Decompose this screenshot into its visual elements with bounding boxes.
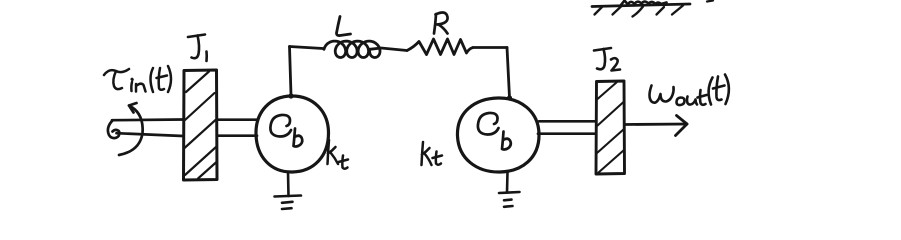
ground 1 (below motor 1) [275,172,302,209]
input shaft (two lines) [112,120,183,137]
wire motor1 top to corner [290,47,292,96]
junction dot motor1 top [288,93,293,98]
label k_t (motor 2) [422,142,443,165]
label e_b (motor 1) [270,115,302,147]
label J2 [594,48,620,71]
label k_t (motor 1) [328,140,349,169]
label tau_in(t) [104,66,171,92]
inductor L coil [324,41,380,57]
inertia J2 (hatched rectangle) [596,81,625,174]
wall fixed support (top right, cut off) [592,4,690,17]
motor 1 body (circle) [256,96,329,172]
label e_b (motor 2) [478,113,511,150]
shaft J1 to motor 1 [217,120,258,136]
label R [434,13,448,34]
spring (bottom of spring above wall, cut off) [621,1,667,6]
output arrow [625,116,688,136]
inertia J1 (hatched rectangle) [184,70,218,180]
wire coil to resistor [370,48,407,51]
wire right corner down to motor 2 [507,48,510,98]
wire corner to coil [290,47,324,49]
shaft motor 2 to J2 [538,121,596,133]
rotation arrow around input shaft [119,103,143,155]
ground 2 (below motor 2) [499,172,520,207]
label J1 [188,35,207,62]
speck top right [707,1,713,2]
junction dot motor2 top [507,95,512,100]
label omega_out(t) [650,75,729,106]
wire resistor to right corner [473,46,507,49]
shaft end cap (small loop) [108,121,119,139]
motor 2 body (circle) [457,98,539,172]
label L [337,17,351,36]
resistor R zigzag [407,39,473,55]
